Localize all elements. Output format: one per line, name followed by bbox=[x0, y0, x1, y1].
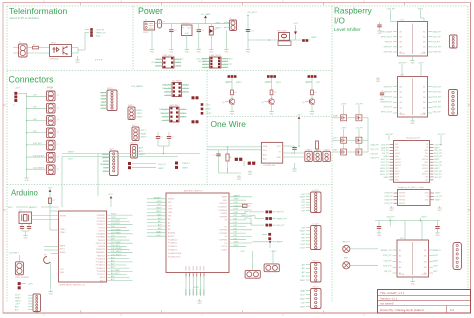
svg-text:A1: A1 bbox=[399, 249, 401, 252]
svg-text:IO24_PI?: IO24_PI? bbox=[434, 165, 442, 167]
ground shifter1 bbox=[377, 29, 382, 35]
svg-text:GND?: GND? bbox=[137, 116, 144, 118]
svg-text:MISO: MISO bbox=[193, 265, 195, 270]
ground reset circuit bbox=[246, 40, 251, 53]
svg-text:D12/MISO: D12/MISO bbox=[218, 207, 227, 209]
svg-text:GPIO25?: GPIO25? bbox=[384, 102, 393, 104]
svg-text:GND: GND bbox=[436, 235, 441, 237]
svg-text:+3V3_PI: +3V3_PI bbox=[96, 29, 105, 31]
svg-text:PC2/ADC2: PC2/ADC2 bbox=[96, 264, 105, 267]
power labels mosfet row 2 bbox=[341, 127, 363, 138]
svg-text:IO23_PI?: IO23_PI? bbox=[434, 162, 442, 164]
svg-text:GND?: GND? bbox=[384, 177, 389, 179]
svg-text:IO22_PI?: IO22_PI? bbox=[433, 87, 442, 89]
ground shifter1 below bbox=[410, 56, 415, 64]
svg-text:GND: GND bbox=[293, 171, 298, 173]
connector CON6 bbox=[47, 153, 59, 163]
connector LCD1? bbox=[300, 190, 321, 213]
svg-text:AVCC: AVCC bbox=[60, 248, 66, 251]
ground LED1 bbox=[230, 105, 235, 115]
IC U2 DS2482 bbox=[261, 142, 282, 167]
svg-text:1W_IO?: 1W_IO? bbox=[158, 164, 167, 166]
svg-text:VCCA: VCCA bbox=[400, 52, 406, 55]
svg-text:ARDUINO_SHIELD?: ARDUINO_SHIELD? bbox=[184, 190, 204, 193]
svg-text:A2: A2 bbox=[399, 255, 401, 258]
svg-text:D12_MISO?: D12_MISO? bbox=[111, 251, 123, 253]
connector bottom left J4 bbox=[28, 294, 41, 312]
svg-text:GPIO17: GPIO17 bbox=[395, 159, 401, 161]
svg-text:GND: GND bbox=[237, 179, 242, 181]
wire mosfet row 1 bbox=[332, 114, 368, 118]
connector serial mid 3 bbox=[131, 142, 146, 159]
svg-text:GND: GND bbox=[270, 113, 275, 115]
svg-text:OW_PI?: OW_PI? bbox=[371, 153, 379, 155]
svg-text:Level Shifter: Level Shifter bbox=[334, 27, 361, 33]
svg-text:D8: D8 bbox=[225, 220, 227, 222]
connector power output bbox=[215, 18, 237, 31]
svg-text:+3V3_PI?: +3V3_PI? bbox=[380, 144, 388, 146]
svg-text:IO18_PI?: IO18_PI? bbox=[383, 255, 392, 257]
svg-text:B3: B3 bbox=[424, 261, 426, 263]
wire shifter2 left labels bbox=[381, 87, 393, 114]
svg-text:1-W_RASP?: 1-W_RASP? bbox=[131, 85, 144, 88]
connector shifter3 right bbox=[453, 243, 462, 270]
power +5V arrow mid bbox=[108, 194, 114, 207]
connector LCD2? bbox=[300, 224, 321, 250]
connector EXT1? bbox=[300, 261, 321, 283]
svg-text:+5V?: +5V? bbox=[215, 23, 221, 25]
svg-text:B4: B4 bbox=[424, 267, 426, 269]
svg-text:GND: GND bbox=[223, 200, 228, 202]
capacitor C16 xtal bbox=[27, 224, 31, 232]
svg-text:GND: GND bbox=[225, 51, 230, 53]
wire LED2 driver bbox=[265, 78, 282, 90]
svg-text:GPIO4: GPIO4 bbox=[395, 153, 400, 155]
svg-text:J?: J? bbox=[57, 144, 59, 146]
svg-text:PC4/SDA: PC4/SDA bbox=[97, 270, 106, 273]
svg-text:A5_SCL?: A5_SCL? bbox=[111, 272, 120, 275]
svg-text:RESET?: RESET? bbox=[433, 250, 442, 252]
wire shifter2 right labels bbox=[433, 87, 442, 114]
svg-text:RXD?: RXD? bbox=[111, 214, 117, 216]
svg-text:Connectors: Connectors bbox=[9, 75, 55, 85]
svg-text:+5V_PI?: +5V_PI? bbox=[435, 196, 442, 198]
svg-text:D3_INT1?: D3_INT1? bbox=[111, 223, 121, 225]
svg-text:GPIO_CE1?: GPIO_CE1? bbox=[381, 112, 393, 114]
section border right bbox=[467, 6, 469, 288]
section border tele bottom bbox=[7, 70, 332, 72]
connector one wire J1 bbox=[305, 149, 313, 161]
svg-text:B3: B3 bbox=[423, 97, 425, 99]
net class marks bbox=[95, 59, 103, 62]
svg-text:SDA_PI?: SDA_PI? bbox=[433, 30, 442, 33]
svg-text:CE1_PI?: CE1_PI? bbox=[434, 177, 442, 179]
svg-text:SCL?: SCL? bbox=[156, 235, 162, 237]
ground LED2 bbox=[269, 105, 274, 115]
power wires shifter1 bbox=[386, 8, 424, 21]
connector one wire J2 bbox=[314, 149, 322, 161]
svg-text:SDA: SDA bbox=[263, 145, 268, 148]
connector CON1 bbox=[47, 91, 59, 101]
svg-text:TXD?: TXD? bbox=[276, 82, 282, 84]
svg-text:SDA_PI?: SDA_PI? bbox=[381, 146, 389, 149]
svg-text:D10_SS?: D10_SS? bbox=[33, 143, 42, 145]
svg-text:J?: J? bbox=[57, 169, 59, 171]
connector shifter1 right bbox=[450, 35, 458, 48]
resistor R7 reset pullup bbox=[48, 198, 56, 204]
svg-text:RXD?: RXD? bbox=[236, 82, 243, 84]
ground shifter2 top bbox=[376, 77, 381, 83]
power wires GPIO bbox=[385, 134, 445, 146]
svg-text:B1: B1 bbox=[423, 31, 425, 33]
solder jumper SJ8 vertical bbox=[262, 233, 284, 244]
svg-text:PWM: PWM bbox=[47, 86, 53, 89]
resistor R6 pullup bbox=[315, 141, 318, 153]
svg-text:SCL?: SCL? bbox=[15, 295, 21, 297]
svg-text:GND?: GND? bbox=[156, 211, 162, 213]
wire GPIO right labels bbox=[434, 144, 442, 178]
svg-text:LED3?: LED3? bbox=[305, 82, 312, 84]
connector shifter2 right bbox=[449, 90, 458, 116]
svg-text:EXT1?: EXT1? bbox=[313, 261, 320, 263]
svg-text:MISO?: MISO? bbox=[197, 289, 199, 295]
connector CON7 bbox=[47, 165, 59, 175]
svg-text:SFH620A: SFH620A bbox=[50, 57, 59, 60]
svg-text:GND: GND bbox=[377, 235, 382, 237]
svg-text:AGND: AGND bbox=[60, 251, 66, 254]
title block bbox=[378, 290, 471, 314]
svg-text:not saved!: not saved! bbox=[380, 302, 394, 306]
svg-text:GND: GND bbox=[376, 81, 381, 83]
svg-text:GND: GND bbox=[380, 101, 385, 103]
solder jumper one wire 2 bbox=[248, 162, 256, 165]
svg-text:GPIO17?: GPIO17? bbox=[384, 47, 393, 49]
svg-text:RESET?: RESET? bbox=[154, 197, 163, 199]
connector CON5 bbox=[47, 140, 59, 150]
regulator IC1 LM1117 bbox=[181, 23, 192, 48]
svg-text:CE1: CE1 bbox=[425, 180, 428, 182]
svg-text:PC3/ADC3: PC3/ADC3 bbox=[96, 267, 105, 270]
svg-text:SDA?: SDA? bbox=[300, 289, 306, 292]
svg-text:B1: B1 bbox=[423, 86, 425, 88]
svg-text:FTDI?: FTDI? bbox=[107, 88, 113, 90]
svg-text:IRQ_PI?: IRQ_PI? bbox=[277, 225, 286, 227]
connector serial mid 1 bbox=[128, 105, 143, 120]
svg-text:GPIO22: GPIO22 bbox=[395, 165, 401, 167]
svg-text:A3: A3 bbox=[168, 228, 170, 231]
svg-text:GPIO4?: GPIO4? bbox=[385, 42, 393, 44]
svg-text:+3V3?: +3V3? bbox=[205, 113, 212, 115]
ground one wire bbox=[237, 175, 242, 181]
svg-text:PD6/AIN0: PD6/AIN0 bbox=[97, 233, 105, 236]
svg-text:Raspberry_PI: Raspberry_PI bbox=[407, 137, 421, 140]
wire mosfet outputs bbox=[368, 118, 380, 160]
power +5V RASP arrow bbox=[200, 13, 211, 24]
svg-text:SCL_PI?: SCL_PI? bbox=[433, 36, 442, 38]
wire power rail bbox=[155, 20, 231, 24]
op-amp OK1 optocoupler SFH620A bbox=[50, 43, 72, 61]
wire atmega right pins bbox=[107, 214, 133, 282]
svg-text:GPIO23: GPIO23 bbox=[422, 165, 428, 167]
svg-text:A4: A4 bbox=[400, 46, 402, 49]
wire mosfet row 3 bbox=[332, 150, 368, 153]
transistor level shift Q9 bbox=[356, 149, 362, 155]
wire DS2482 to connectors bbox=[283, 145, 304, 157]
svg-text:GND: GND bbox=[168, 212, 173, 214]
svg-text:MISO: MISO bbox=[196, 265, 198, 270]
svg-text:I2C_SEL?: I2C_SEL? bbox=[172, 81, 182, 83]
svg-text:PD7/AIN1: PD7/AIN1 bbox=[97, 236, 105, 239]
svg-text:TINFO_PI?: TINFO_PI? bbox=[277, 218, 288, 220]
svg-text:D0/RX: D0/RX bbox=[221, 249, 227, 251]
IC U4 expansion header bbox=[166, 190, 229, 273]
svg-text:IO17_PI?: IO17_PI? bbox=[433, 47, 442, 49]
wire teleinfo input stubs bbox=[13, 48, 19, 54]
svg-text:EXT2?: EXT2? bbox=[313, 287, 320, 289]
svg-text:RXD?: RXD? bbox=[433, 260, 439, 262]
svg-text:v v v v: v v v v bbox=[95, 59, 103, 62]
svg-text:A4: A4 bbox=[400, 101, 402, 104]
label PWM bbox=[47, 86, 53, 89]
label jumper cluster left bbox=[241, 212, 264, 226]
svg-text:SDA?: SDA? bbox=[15, 297, 21, 300]
svg-text:Drawn By: Charles-Henri Hallar: Drawn By: Charles-Henri Hallard bbox=[380, 308, 424, 312]
svg-text:PC5/ADC5SCL: PC5/ADC5SCL bbox=[168, 255, 181, 258]
svg-text:PC3/ADC3: PC3/ADC3 bbox=[168, 249, 177, 252]
connector one wire J3 bbox=[323, 149, 331, 161]
section border arduino top bbox=[7, 184, 332, 186]
svg-text:GND: GND bbox=[246, 51, 251, 53]
connector CON3 bbox=[47, 116, 59, 126]
svg-text:GND: GND bbox=[76, 62, 81, 64]
capacitor C19 bbox=[377, 221, 382, 237]
svg-text:IO29_PI?: IO29_PI? bbox=[385, 196, 393, 198]
svg-text:A1: A1 bbox=[400, 85, 402, 88]
svg-text:A3: A3 bbox=[400, 96, 402, 99]
solder jumper SJ2 bbox=[192, 120, 199, 123]
svg-text:GND?: GND? bbox=[215, 28, 222, 30]
svg-text:GND: GND bbox=[411, 283, 416, 285]
IC U9 level shifter 3 bbox=[393, 238, 434, 277]
ground power 5 bbox=[209, 48, 214, 54]
svg-text:GND?: GND? bbox=[435, 193, 440, 195]
svg-text:PC1/ADC1: PC1/ADC1 bbox=[96, 261, 105, 264]
capacitor C2 bbox=[197, 24, 205, 48]
svg-text:IO28_PI?: IO28_PI? bbox=[385, 193, 393, 195]
svg-text:IO4_PI?: IO4_PI? bbox=[382, 153, 389, 155]
svg-text:ADC6: ADC6 bbox=[100, 276, 105, 279]
svg-text:IO18_PI?: IO18_PI? bbox=[434, 156, 442, 158]
section title Teleinformation bbox=[9, 6, 67, 20]
svg-text:XTAL1: XTAL1 bbox=[60, 228, 66, 231]
jumper block SV1 power select bbox=[151, 55, 184, 68]
svg-text:GND: GND bbox=[25, 180, 30, 182]
solder jumper SJ1 bbox=[192, 96, 199, 99]
svg-text:XTAL2: XTAL2 bbox=[60, 231, 66, 234]
svg-text:GPIO18: GPIO18 bbox=[422, 159, 428, 161]
svg-text:1/1: 1/1 bbox=[450, 308, 455, 312]
IC U7 Raspberry PI GPIO bbox=[390, 137, 434, 183]
svg-text:J?: J? bbox=[57, 132, 59, 134]
svg-text:RESET_PI?: RESET_PI? bbox=[381, 250, 393, 252]
capacitor C13 DS2482 bbox=[291, 146, 297, 155]
svg-text:GND: GND bbox=[169, 51, 174, 53]
svg-text:+5V_EXT?: +5V_EXT? bbox=[9, 253, 20, 255]
jumper block serial RASP bbox=[159, 105, 186, 122]
svg-text:MISO: MISO bbox=[395, 174, 400, 176]
transistor level shift Q4 bbox=[341, 115, 347, 121]
ground U4 bbox=[194, 287, 203, 305]
svg-text:OW?: OW? bbox=[333, 150, 337, 152]
svg-text:GND?: GND? bbox=[182, 167, 189, 169]
capacitor C12 one wire bbox=[213, 154, 221, 173]
IC U6 level shifter 2 bbox=[393, 74, 432, 117]
svg-text:GND?: GND? bbox=[384, 156, 389, 158]
svg-text:OK1?: OK1? bbox=[51, 43, 57, 45]
connector CON2 bbox=[47, 103, 59, 113]
svg-text:PD4/T0: PD4/T0 bbox=[99, 227, 105, 229]
wire shifter3 supply rail bbox=[375, 216, 440, 240]
svg-text:IO4_PI?: IO4_PI? bbox=[433, 42, 441, 44]
svg-text:A3: A3 bbox=[400, 41, 402, 44]
svg-text:GPIO27?: GPIO27? bbox=[384, 107, 393, 109]
svg-text:Raspberry_PI_(REV_2_Only): Raspberry_PI_(REV_2_Only) bbox=[398, 187, 425, 189]
wire lower bus connectors bbox=[62, 146, 200, 161]
svg-text:VCC: VCC bbox=[60, 269, 65, 271]
connector CON4 bbox=[47, 128, 59, 138]
section border connectors right bbox=[206, 71, 208, 185]
svg-text:SCL_PI?: SCL_PI? bbox=[371, 149, 380, 151]
svg-text:VCCA: VCCA bbox=[400, 113, 406, 116]
section border raspberry left bbox=[331, 6, 333, 302]
svg-text:D3/PWM: D3/PWM bbox=[219, 240, 227, 242]
svg-text:GPIO_SCL?: GPIO_SCL? bbox=[381, 36, 393, 38]
power +5V one wire bbox=[297, 115, 303, 147]
svg-text:IO23_PI?: IO23_PI? bbox=[433, 92, 442, 94]
wire REV2 left labels bbox=[385, 193, 393, 205]
svg-text:D6/PWM: D6/PWM bbox=[219, 230, 227, 232]
svg-text:Version: v1.1: Version: v1.1 bbox=[380, 296, 398, 300]
section border one wire top bbox=[207, 116, 332, 118]
svg-text:GND: GND bbox=[197, 51, 202, 53]
svg-text:D10_SS?: D10_SS? bbox=[111, 245, 120, 247]
svg-text:MOSI_PI?: MOSI_PI? bbox=[380, 168, 389, 170]
svg-text:GND?: GND? bbox=[156, 208, 162, 210]
svg-text:A1: A1 bbox=[400, 30, 402, 33]
wire junction mid bbox=[253, 241, 272, 248]
svg-text:PD5/T1: PD5/T1 bbox=[99, 230, 105, 232]
svg-text:PC4/ADC4SDA: PC4/ADC4SDA bbox=[168, 252, 182, 255]
svg-text:MISO?: MISO? bbox=[204, 289, 206, 295]
svg-text:PB4/MISO: PB4/MISO bbox=[96, 252, 105, 254]
wire shifter3 left labels bbox=[381, 250, 393, 273]
svg-text:VCC: VCC bbox=[277, 146, 282, 148]
transistor level shift Q5 bbox=[356, 115, 362, 121]
svg-text:D2_INT0?: D2_INT0? bbox=[111, 220, 121, 222]
svg-text:B2: B2 bbox=[423, 92, 425, 94]
svg-text:GPIO25: GPIO25 bbox=[422, 174, 428, 176]
connector J1 teleinformation input bbox=[19, 42, 28, 57]
section title Connectors bbox=[9, 75, 55, 85]
svg-text:A2: A2 bbox=[168, 225, 170, 228]
svg-text:3V3: 3V3 bbox=[395, 144, 398, 146]
ground one wire lower bbox=[248, 170, 253, 176]
svg-text:LED1?: LED1? bbox=[225, 82, 232, 84]
ground LED3 bbox=[310, 105, 315, 115]
svg-text:+5V?: +5V? bbox=[237, 206, 241, 208]
capacitor C15 xtal bbox=[20, 224, 24, 232]
svg-text:TXD?: TXD? bbox=[111, 217, 117, 219]
ground power 2 bbox=[169, 48, 174, 54]
svg-text:A0: A0 bbox=[168, 218, 170, 221]
svg-text:D5_PWM?: D5_PWM? bbox=[111, 229, 122, 231]
capacitor C20 bbox=[435, 221, 440, 237]
svg-text:D13/SCK: D13/SCK bbox=[219, 203, 228, 205]
svg-text:GND?: GND? bbox=[435, 200, 440, 202]
svg-text:PD3/INT1: PD3/INT1 bbox=[97, 224, 105, 226]
svg-text:A1: A1 bbox=[168, 221, 170, 224]
svg-text:GND?: GND? bbox=[141, 137, 148, 139]
svg-text:+5V_RASP: +5V_RASP bbox=[200, 13, 211, 16]
jumper block SV2 power select 2 bbox=[196, 55, 233, 69]
svg-text:CE0_PI?: CE0_PI? bbox=[371, 158, 380, 160]
svg-text:LCD1?: LCD1? bbox=[313, 190, 320, 192]
svg-text:MISO?: MISO? bbox=[200, 289, 202, 295]
svg-text:MISO?: MISO? bbox=[193, 289, 195, 295]
ground power 3 bbox=[185, 48, 190, 54]
ground power jack bbox=[150, 30, 155, 53]
svg-text:1W_PI?: 1W_PI? bbox=[277, 212, 285, 214]
svg-text:PB2/SS: PB2/SS bbox=[98, 246, 105, 248]
svg-text:D12_MISO?: D12_MISO? bbox=[33, 167, 45, 169]
svg-text:RXD_PI?: RXD_PI? bbox=[383, 266, 392, 268]
svg-text:GND?: GND? bbox=[434, 159, 439, 161]
transistor level shift Q6 bbox=[341, 137, 347, 143]
svg-text:GND: GND bbox=[411, 123, 416, 125]
svg-text:GND?: GND? bbox=[300, 231, 306, 233]
svg-text:D1/TX: D1/TX bbox=[222, 246, 228, 248]
svg-text:GND: GND bbox=[168, 209, 173, 211]
connector X1 DC jack bbox=[143, 20, 155, 35]
svg-text:PB0/ICP: PB0/ICP bbox=[98, 240, 106, 242]
resistor R LED2 bbox=[270, 90, 277, 95]
capacitor C17 shifter1 bbox=[377, 22, 381, 29]
svg-text:TXD_PI?: TXD_PI? bbox=[434, 150, 442, 152]
svg-text:SW_PI?: SW_PI? bbox=[342, 241, 350, 243]
svg-text:GPIO29: GPIO29 bbox=[399, 196, 405, 198]
svg-text:MISO?: MISO? bbox=[189, 289, 191, 295]
resistor R5 one wire bbox=[226, 154, 233, 173]
svg-text:TINFO?: TINFO? bbox=[241, 215, 249, 217]
label one wire small bbox=[131, 85, 144, 88]
wire mosfet row 2 bbox=[332, 138, 368, 141]
resonator crescent bbox=[44, 255, 50, 264]
svg-text:B4: B4 bbox=[423, 47, 425, 49]
svg-text:A2: A2 bbox=[400, 35, 402, 38]
section border tele power divider bbox=[132, 6, 134, 71]
svg-text:GND: GND bbox=[411, 62, 416, 64]
solder jumper SJ5 bbox=[266, 211, 285, 214]
svg-text:D6_PWM?: D6_PWM? bbox=[111, 232, 122, 234]
connector SUB-D tall A bbox=[100, 88, 117, 111]
svg-text:CE0: CE0 bbox=[425, 177, 428, 179]
capacitor C1 bbox=[169, 24, 177, 48]
svg-text:3V3?: 3V3? bbox=[8, 207, 14, 209]
svg-text:GND: GND bbox=[60, 272, 65, 274]
svg-text:SDA?: SDA? bbox=[333, 114, 338, 117]
svg-text:GND: GND bbox=[209, 51, 214, 53]
switch SW2 bbox=[343, 258, 378, 269]
